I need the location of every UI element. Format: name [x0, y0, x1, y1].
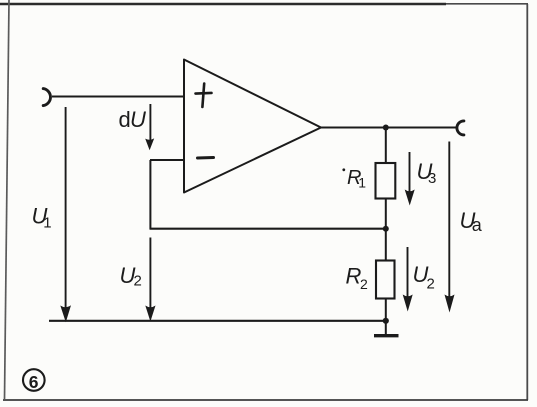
wire input to non-inverting input	[52, 96, 184, 98]
label U2 (left)	[120, 263, 142, 290]
wire feedback horizontal	[150, 228, 387, 230]
terminal output	[457, 121, 464, 135]
wire R1 to feedback node	[385, 199, 387, 230]
wire output	[321, 127, 456, 129]
svg-text:2: 2	[360, 276, 368, 292]
resistor R1	[376, 163, 396, 199]
label U1	[32, 204, 52, 232]
label U3	[417, 159, 437, 187]
svg-text:1: 1	[43, 215, 51, 232]
junction ground node	[383, 318, 389, 324]
arrow U1	[60, 107, 71, 322]
label Ua	[460, 208, 483, 235]
svg-text:2: 2	[134, 273, 142, 290]
op-amp non-inverting (+) input marking	[196, 84, 212, 108]
wire bottom rail	[49, 320, 386, 322]
arrow U2 left	[145, 238, 155, 322]
svg-text:a: a	[472, 215, 483, 235]
label dU	[119, 107, 147, 132]
svg-text:d: d	[119, 107, 131, 132]
svg-text:3: 3	[428, 170, 436, 187]
wire feedback vertical	[149, 160, 151, 229]
terminal input	[43, 89, 50, 106]
svg-text:2: 2	[427, 276, 435, 293]
arrow dU	[145, 104, 154, 150]
wire feedback node to R2	[385, 229, 387, 261]
wire output node to R1	[385, 128, 387, 164]
label R1	[342, 167, 366, 190]
arrow Ua	[445, 142, 455, 313]
wire R2 to ground node	[385, 299, 387, 322]
svg-text:6: 6	[29, 372, 39, 392]
svg-text:U: U	[130, 107, 146, 132]
ground	[374, 321, 399, 336]
label U2 (right)	[413, 262, 435, 293]
resistor R2	[376, 261, 395, 299]
wire inverting input	[150, 159, 184, 161]
svg-text:1: 1	[358, 174, 366, 190]
op-amp inverting (-) input marking	[198, 156, 214, 160]
arrow U3	[405, 152, 415, 206]
figure number 6	[23, 369, 45, 392]
op-amp	[184, 60, 321, 193]
junction output node	[383, 125, 389, 131]
arrow U2 right	[403, 247, 413, 312]
label R2	[346, 264, 369, 293]
junction feedback node	[383, 226, 389, 232]
